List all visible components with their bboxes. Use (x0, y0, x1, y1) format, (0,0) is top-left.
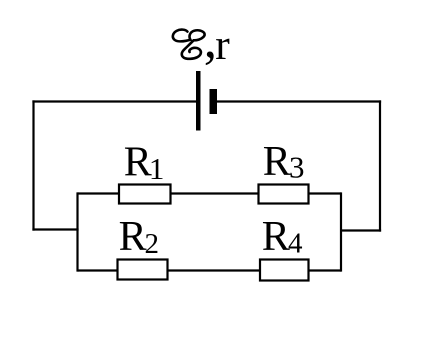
resistor R2 box (118, 260, 168, 280)
wire: inner right vertical (joins R3 and R4 branches) (340, 192, 342, 271)
wire: lower-right horizontal stub (340, 229, 381, 231)
svg-text:R: R (262, 214, 290, 260)
svg-text:R: R (263, 139, 291, 185)
resistor R3 box (259, 185, 309, 204)
wire: right outer vertical (379, 100, 381, 231)
resistor R1 box (119, 185, 171, 204)
battery label E,r : script capital E (173, 30, 205, 59)
svg-text:2: 2 (145, 228, 160, 260)
svg-text:1: 1 (149, 151, 165, 186)
svg-text:R: R (124, 140, 152, 186)
wire: battery left terminal to top-left corner (32, 100, 198, 102)
wire: bottom branch through R2 and R4 (78, 269, 342, 271)
wire: inner left vertical (joins R1 and R2 branches) (76, 192, 78, 271)
svg-text:R: R (119, 214, 147, 260)
svg-text:3: 3 (289, 150, 305, 185)
wire: left outer vertical (32, 100, 34, 230)
wire: battery right terminal to top-right corner (216, 100, 381, 102)
svg-text:4: 4 (288, 228, 303, 260)
wire: lower-left horizontal connector (32, 228, 78, 230)
svg-text:r: r (215, 21, 230, 69)
resistor R4 box (260, 260, 309, 281)
battery short plate (negative terminal) (210, 89, 218, 114)
wire: top branch through R1 and R3 (78, 192, 342, 194)
battery long plate (positive terminal) (196, 71, 201, 131)
